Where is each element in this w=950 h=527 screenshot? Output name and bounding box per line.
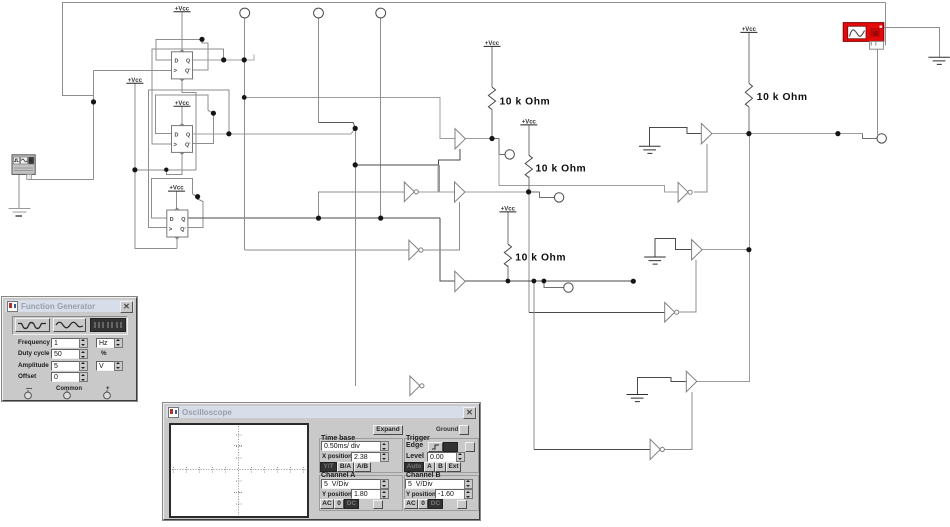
wire R4 bottom lead bbox=[748, 107, 750, 134]
wire clock feed to U1 clk bbox=[94, 70, 172, 72]
wire clear bus y=170 bbox=[135, 169, 196, 171]
wire select bar thick bbox=[438, 165, 441, 192]
wire R2 bottom lead bbox=[528, 177, 530, 192]
wire inverter Na out to buffer Bb enable riser bbox=[423, 202, 460, 250]
svg-text:D: D bbox=[175, 132, 179, 138]
Vcc label R4 bbox=[740, 27, 757, 33]
connector TP4 bbox=[505, 150, 514, 159]
wire FG plus terminal bbox=[29, 175, 94, 180]
wire U3 Q-bar jog bbox=[188, 194, 203, 227]
inverter N4 bbox=[678, 182, 692, 202]
ground label and button bbox=[436, 426, 458, 433]
wire Vcc V4 stem to U3 preset bbox=[176, 191, 178, 210]
wire Vcc R2 stem bbox=[528, 125, 530, 155]
oscilloscope window bbox=[163, 403, 480, 520]
wire U3 clear stem bbox=[176, 237, 178, 248]
inverter Na bbox=[409, 240, 423, 260]
connector TP3 bbox=[376, 8, 386, 18]
connector TP2 bbox=[314, 8, 324, 18]
Vcc label U3 bbox=[168, 186, 185, 192]
wire top rail from FG net to scope icon bbox=[62, 2, 886, 4]
svg-text:Q': Q' bbox=[185, 69, 190, 75]
svg-text:D: D bbox=[175, 59, 179, 65]
ground G5 bbox=[644, 257, 666, 264]
Vcc label V2 (clear rail) bbox=[126, 78, 143, 84]
wire U2 clear jog bbox=[166, 152, 182, 174]
function generator window bbox=[2, 297, 137, 401]
wire select branch from V2 rail bbox=[355, 164, 438, 166]
wire buffer Ba enable bbox=[438, 149, 460, 165]
wire U2 D feedback loop bbox=[156, 95, 209, 134]
svg-text:Q': Q' bbox=[180, 227, 185, 233]
wire buffer Bd output riser to mux bus bbox=[697, 134, 750, 382]
wire U1 Q loop to U2 clock bbox=[152, 49, 224, 144]
Vcc label R2 bbox=[520, 120, 537, 126]
wire ground G2 hook to buffer Bd input bbox=[637, 377, 686, 394]
flip-flop U1 bbox=[172, 50, 193, 81]
duty cycle row bbox=[18, 350, 50, 357]
connector TP5 bbox=[564, 283, 573, 292]
frequency row bbox=[18, 339, 50, 346]
amplitude row bbox=[18, 362, 49, 369]
wire scope icon to ground G3 bbox=[884, 28, 939, 58]
trigger group bbox=[404, 438, 479, 473]
wire Vcc V2 stem and clear rail down bbox=[135, 84, 177, 249]
wire bus hook to connector TP5 bbox=[544, 281, 564, 288]
wire R2 node hook to connector TP7 bbox=[529, 192, 555, 198]
wire ground G1 hook to buffer Be input bbox=[650, 128, 702, 146]
wire Vcc V3 stem to U2 preset bbox=[181, 107, 183, 126]
Vcc label R1 bbox=[484, 41, 501, 47]
wire Q1 stub with tick bbox=[244, 55, 254, 60]
inverter N5 bbox=[665, 302, 679, 322]
inverter N2 bbox=[404, 182, 418, 202]
connector TP6 bbox=[877, 134, 886, 143]
wire buffer Bc output bus bbox=[465, 280, 633, 282]
wire inverter N2 out to buffer Bb bbox=[418, 191, 454, 193]
wire Q1 net to buffer Ba input bbox=[244, 97, 455, 138]
wire buffer Bf output bbox=[702, 249, 749, 251]
wire inverter N5 out to buffer Bf enable bbox=[680, 260, 697, 312]
wire top-right drop to scope icon bbox=[885, 3, 887, 46]
buffer Be bbox=[701, 123, 712, 143]
wire bus hook to connector TP6 bbox=[862, 134, 877, 139]
connector TP1 bbox=[240, 8, 250, 18]
buffer Bb bbox=[455, 182, 465, 202]
wire U2 Q loop to U3 clock bbox=[148, 90, 229, 228]
ground G2 bbox=[627, 395, 649, 402]
wire R2 net down to inverter N5 bbox=[528, 192, 530, 313]
wire V2 rail down bbox=[354, 128, 356, 385]
wire Q3 to buffer Bc input drop bbox=[440, 218, 455, 281]
buffer Ba bbox=[455, 129, 465, 149]
wire TP2 net jog to V2 rail bbox=[319, 123, 356, 129]
connector TP7 bbox=[554, 193, 563, 202]
wire R1 net bus to inverter N4 bbox=[499, 154, 678, 192]
Vcc label top (U1) bbox=[174, 6, 191, 12]
buffer Bf bbox=[692, 240, 703, 260]
wire Vcc R3 stem bbox=[507, 212, 509, 244]
resistor R1 bbox=[488, 87, 495, 109]
wire R3 bottom lead bbox=[507, 265, 509, 281]
channel B group bbox=[404, 475, 479, 511]
wire bus drop to inverter N3 bbox=[533, 281, 535, 449]
wire ground G5 hook to buffer Bf input bbox=[655, 238, 692, 256]
svg-text:>: > bbox=[169, 227, 173, 233]
svg-text:>: > bbox=[174, 69, 178, 75]
expand button bbox=[373, 425, 403, 435]
resistor R4 bbox=[745, 83, 752, 107]
wire scope icon pin drop bbox=[876, 50, 878, 135]
wire TP1 net to inverter Na input bbox=[245, 249, 409, 251]
ground G4 (function generator) bbox=[9, 209, 31, 213]
svg-text:Q: Q bbox=[186, 132, 190, 138]
wire U1 clear chain bbox=[182, 79, 196, 170]
wire buffer Bb output to R2 node bbox=[464, 191, 528, 193]
time base group bbox=[319, 438, 403, 473]
svg-text:Q: Q bbox=[186, 59, 190, 65]
connector TP2 stem bbox=[318, 18, 320, 123]
ground G1 bbox=[639, 146, 661, 153]
svg-text:10 k Ohm: 10 k Ohm bbox=[500, 97, 551, 108]
wire U3 D feedback loop bbox=[152, 179, 193, 219]
wire Vcc R1 stem bbox=[491, 47, 493, 88]
svg-text:D: D bbox=[170, 217, 174, 223]
wire Vcc V1 stem to U1 preset bbox=[181, 12, 183, 52]
resistor R3 bbox=[504, 244, 511, 266]
ground G3 bbox=[928, 57, 950, 64]
waveform selector panel bbox=[12, 316, 128, 335]
wire inverter N5 input row bbox=[529, 312, 665, 314]
wire buffer Ba output to R1 node bbox=[465, 138, 492, 140]
resistor R2 bbox=[525, 155, 532, 177]
wire Q3 branch to inverter N2 bbox=[319, 192, 405, 218]
wire R1 node to connector TP4 bbox=[492, 139, 505, 155]
flip-flop U2 bbox=[172, 124, 193, 154]
wire inverter N3 input row bbox=[534, 448, 650, 450]
svg-text:Q': Q' bbox=[185, 143, 190, 149]
connector TP3 stem bbox=[380, 18, 382, 218]
scope display bbox=[169, 423, 309, 518]
inverter Nb bbox=[410, 376, 424, 396]
svg-text:>: > bbox=[174, 143, 178, 149]
function generator icon bbox=[12, 155, 35, 180]
wire U2 Q output bbox=[193, 128, 356, 133]
wire Q3 output row bbox=[188, 217, 440, 219]
channel A group bbox=[319, 475, 403, 511]
wire FG ground stem bbox=[18, 175, 20, 209]
terminals bbox=[26, 386, 32, 392]
buffer Bc bbox=[455, 271, 465, 292]
Vcc label U2 bbox=[174, 101, 191, 107]
svg-text:10 k Ohm: 10 k Ohm bbox=[757, 92, 808, 103]
inverter N3 bbox=[650, 439, 664, 459]
wire U1 D feedback loop bbox=[156, 40, 202, 60]
flip-flop U3 bbox=[167, 208, 188, 239]
wire U2 Q-bar jog bbox=[193, 111, 214, 144]
wire Vcc R4 stem bbox=[748, 33, 750, 84]
wire left drop x=62 bbox=[63, 3, 94, 96]
wire U1 Q output bbox=[193, 59, 245, 61]
offset row bbox=[18, 373, 36, 380]
wire mux output bus bbox=[712, 133, 862, 135]
connector TP1 stem bbox=[244, 18, 246, 250]
wire U1 Q-bar jog to D loop bbox=[193, 40, 209, 70]
wire inverter N3 out to buffer Bd enable bbox=[665, 392, 692, 450]
Vcc label R3 bbox=[499, 207, 516, 213]
svg-text:Q: Q bbox=[181, 217, 185, 223]
oscilloscope icon bbox=[843, 23, 884, 50]
svg-text:10 k Ohm: 10 k Ohm bbox=[515, 253, 566, 264]
wire buffer Be enable riser from inverter N4 bbox=[694, 144, 707, 192]
wire function generator riser x=93 bbox=[93, 71, 95, 180]
buffer Bd bbox=[686, 371, 697, 392]
svg-text:10 k Ohm: 10 k Ohm bbox=[536, 164, 587, 175]
wire R1 bottom lead bbox=[491, 110, 493, 139]
